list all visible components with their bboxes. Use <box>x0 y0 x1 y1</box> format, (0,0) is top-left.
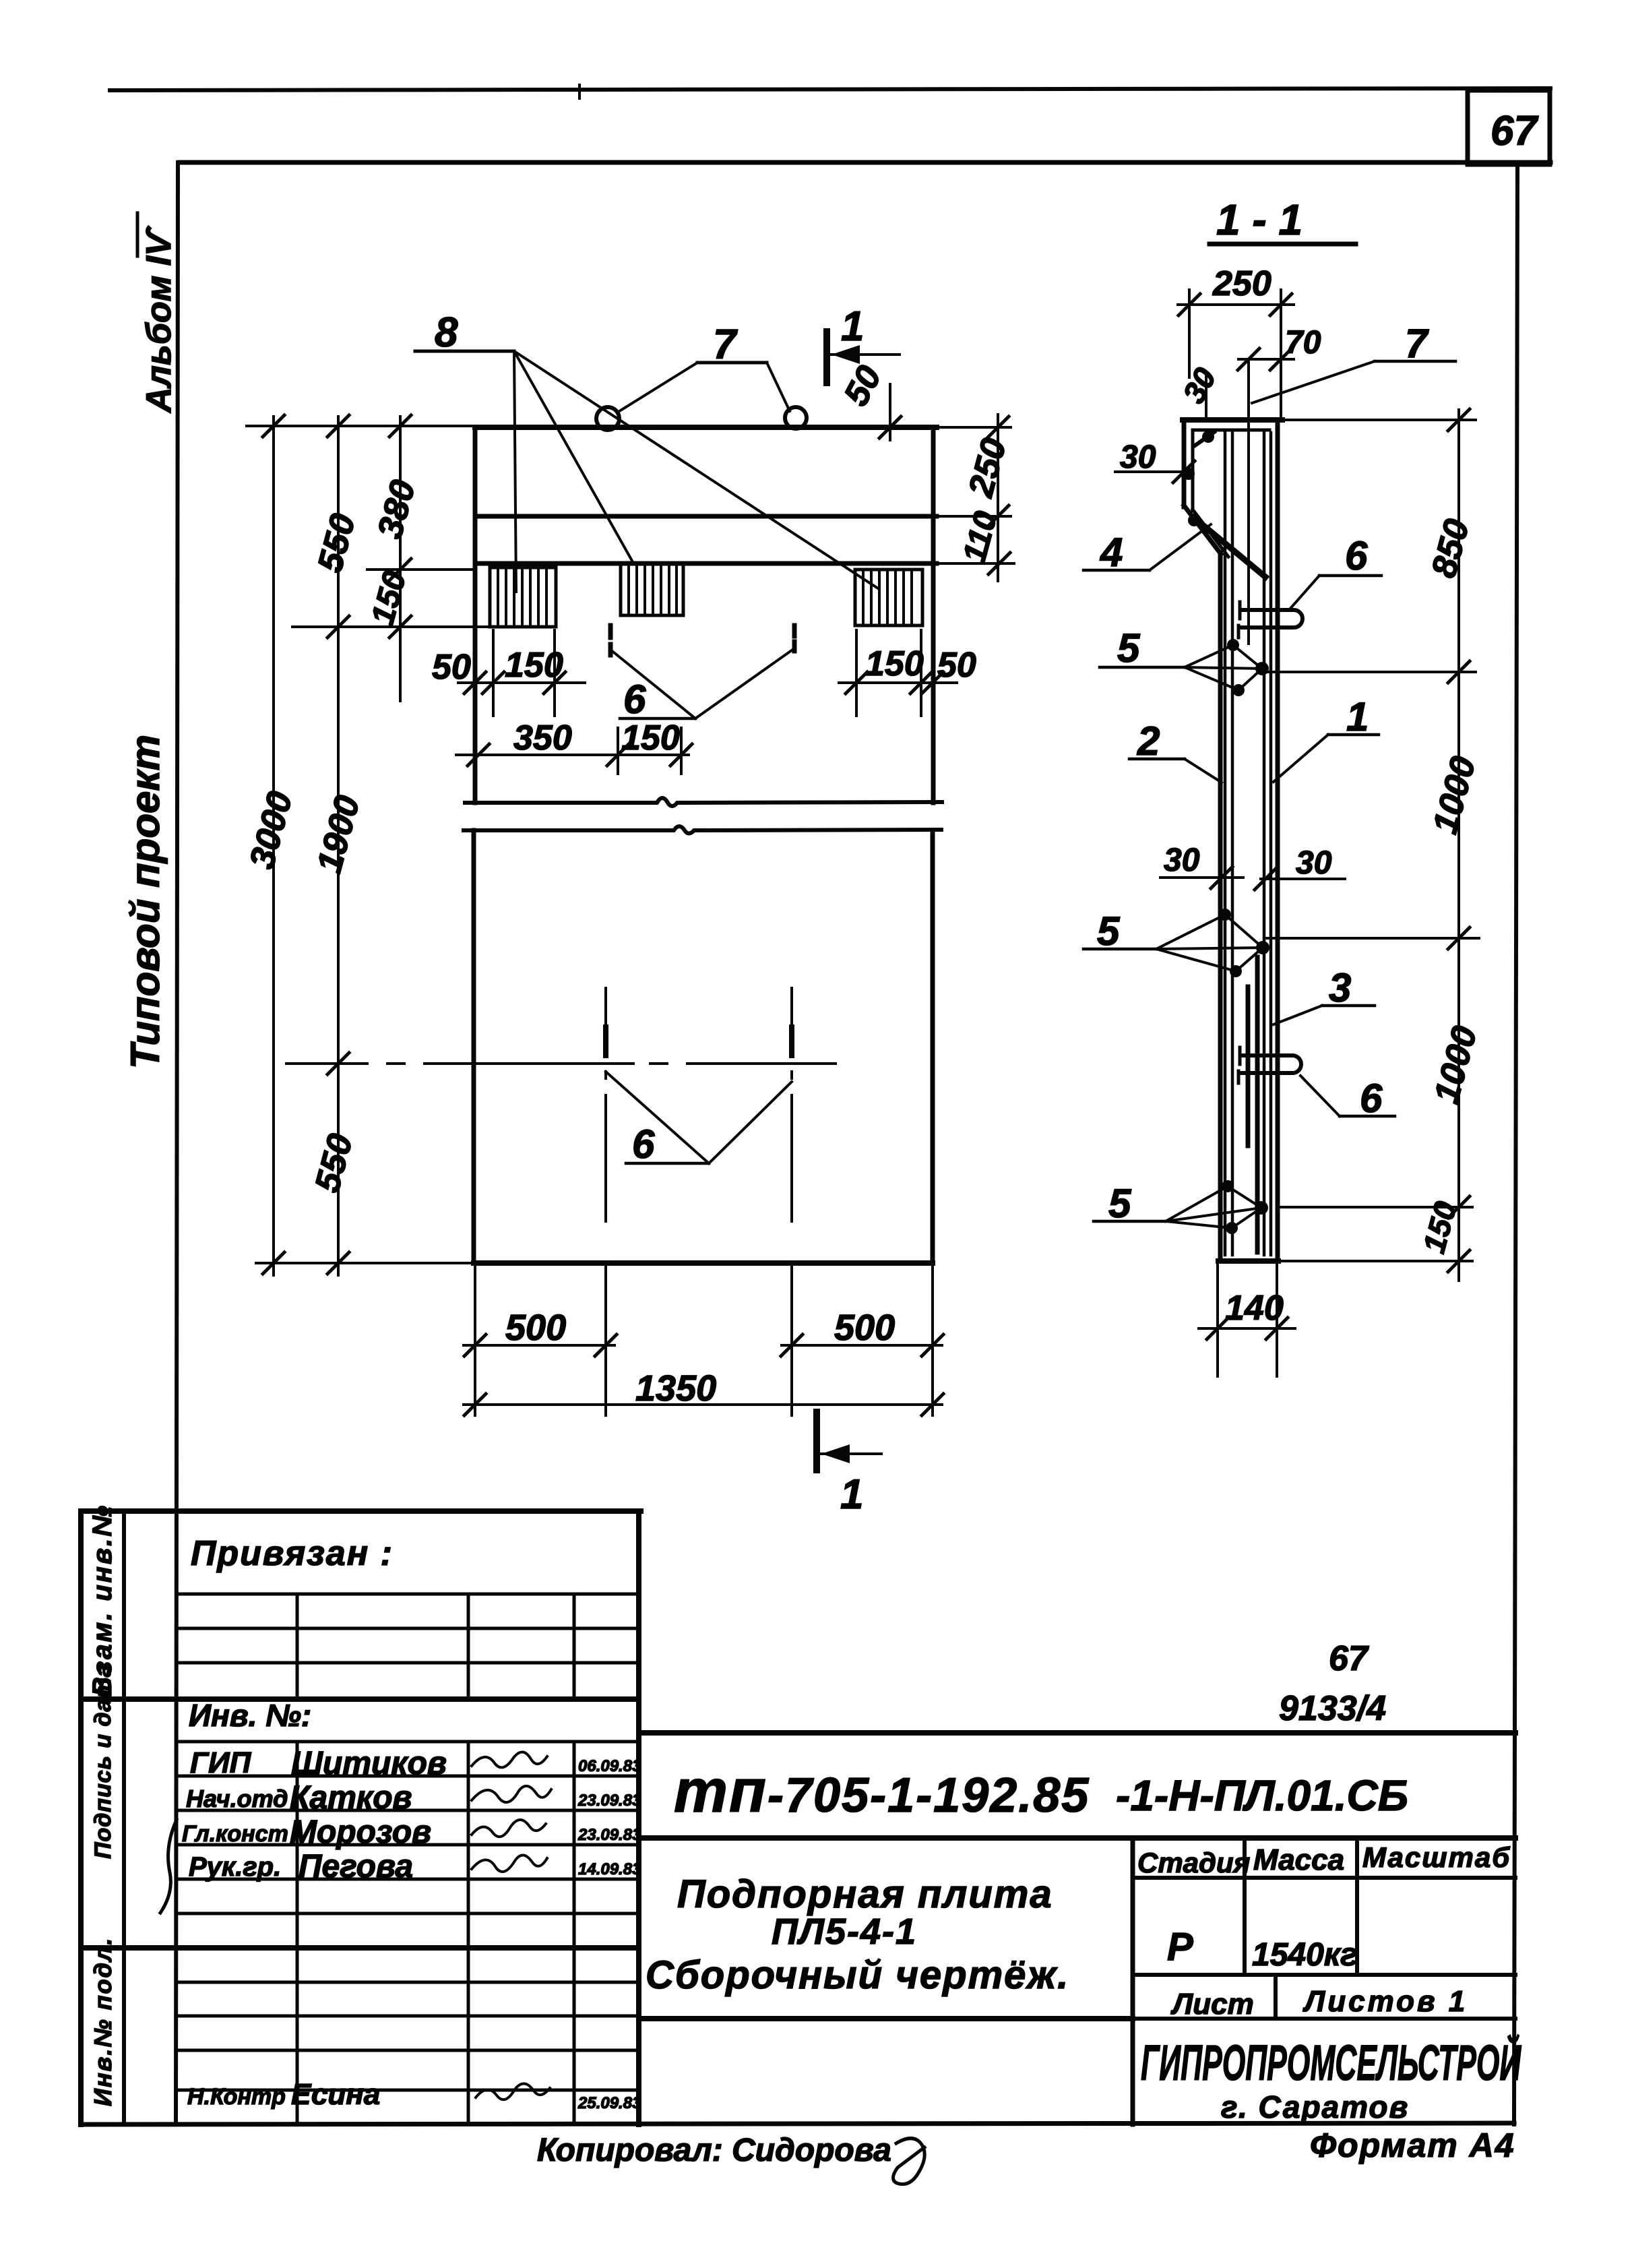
centre line horizontal <box>286 1062 836 1065</box>
svg-text:14.09.83: 14.09.83 <box>578 1860 641 1878</box>
dim 50/150 below plate M1 <box>432 630 585 716</box>
svg-text:Катков: Катков <box>290 1780 412 1816</box>
stamp row lines section 2 <box>178 1742 639 1913</box>
dim line 550/1900/550 <box>308 415 368 1275</box>
title block outer lines <box>641 1733 1515 2019</box>
svg-text:Инв.№ подл.: Инв.№ подл. <box>89 1937 117 2106</box>
row List / Listov 1 <box>1170 1985 1468 2021</box>
svg-text:1 - 1: 1 - 1 <box>1216 195 1303 244</box>
svg-text:30: 30 <box>1120 439 1156 475</box>
dim 30 left face <box>1115 439 1195 483</box>
svg-text:Подпись и дата: Подпись и дата <box>90 1663 116 1859</box>
svg-text:140: 140 <box>1225 1289 1284 1328</box>
leader 6 upper <box>610 648 794 722</box>
svg-text:Морозов: Морозов <box>290 1814 431 1850</box>
lifting loop top right (item 7) <box>785 407 807 429</box>
svg-text:Копировал: Сидорова: Копировал: Сидорова <box>537 2133 891 2168</box>
svg-text:Р: Р <box>1167 1925 1193 1969</box>
anchor rod marks upper (item 6 ends) <box>610 625 794 655</box>
svg-text:Масса: Масса <box>1253 1843 1344 1876</box>
strip label Podpis i data <box>90 1663 116 1859</box>
svg-text:Рук.гр.: Рук.гр. <box>189 1852 281 1882</box>
leader 1 <box>1274 694 1379 782</box>
leader 8 to embedded plates <box>415 309 878 592</box>
embedded plate M1 hatched <box>490 568 556 627</box>
lifting loop item 6 upper (section) <box>1238 602 1303 638</box>
svg-text:Привязан :: Привязан : <box>191 1534 394 1573</box>
svg-text:23.09.83: 23.09.83 <box>577 1791 641 1810</box>
top rule <box>110 85 1550 98</box>
svg-text:Масштаб: Масштаб <box>1362 1841 1511 1873</box>
doc number 67 9133/4 <box>1279 1639 1386 1728</box>
leader 6 upper (section) <box>1289 533 1381 610</box>
centre line vertical right anchor <box>790 988 793 1221</box>
svg-text:ГИП: ГИП <box>190 1746 252 1779</box>
svg-text:1: 1 <box>841 303 864 350</box>
svg-text:67: 67 <box>1329 1639 1369 1678</box>
dim line 380/150 <box>365 415 423 701</box>
dim 500 right <box>781 1308 943 1356</box>
leader 3 <box>1274 965 1375 1024</box>
svg-text:250: 250 <box>1212 264 1272 303</box>
svg-text:Есина: Есина <box>291 2078 380 2111</box>
stamp row lines section 3 <box>178 1982 639 2090</box>
lifting loop top left (item 7) <box>596 407 619 430</box>
svg-text:ГИПРОПРОМСЕЛЬСТРОЙ: ГИПРОПРОМСЕЛЬСТРОЙ <box>1141 2033 1521 2091</box>
note Kopiroval Sidorova <box>537 2133 924 2184</box>
svg-text:4: 4 <box>1100 530 1123 575</box>
dim 500 left <box>464 1308 617 1356</box>
embedded plate M3 hatched <box>855 570 922 625</box>
stamp strip divider <box>122 1511 126 2124</box>
svg-text:ПЛ5-4-1: ПЛ5-4-1 <box>772 1911 917 1952</box>
svg-text:Формат А4: Формат А4 <box>1310 2126 1515 2164</box>
note Format A4 <box>1310 2126 1515 2164</box>
svg-text:150: 150 <box>505 646 563 685</box>
title block inner verticals <box>1133 1838 1357 2124</box>
svg-text:Н.Контр: Н.Контр <box>187 2084 286 2110</box>
plate horizontal line at 250 <box>475 514 937 519</box>
svg-text:1540кг: 1540кг <box>1252 1937 1358 1973</box>
leader 5 bottom <box>1094 1180 1268 1234</box>
left dim extension at 550 <box>292 625 505 628</box>
svg-text:30: 30 <box>1164 842 1200 878</box>
section title 1-1 <box>1210 195 1356 244</box>
value P <box>1167 1925 1193 1969</box>
svg-text:3: 3 <box>1329 965 1351 1010</box>
leader 4 <box>1084 524 1211 575</box>
svg-text:150: 150 <box>865 644 924 683</box>
title block inner horizontals <box>1133 1878 1515 2019</box>
svg-text:5: 5 <box>1108 1181 1132 1226</box>
leader 7 (section) <box>1252 321 1455 403</box>
svg-text:9133/4: 9133/4 <box>1279 1689 1386 1728</box>
dim 1350 <box>464 1368 943 1415</box>
page number box 67 <box>1468 90 1550 164</box>
centre line vertical left anchor <box>604 988 607 1221</box>
plate lower outline <box>474 830 933 1263</box>
dim 250 (section top) <box>1178 264 1294 420</box>
section mark 1 (bottom) <box>817 1412 881 1518</box>
margin note Album IV <box>137 213 179 414</box>
bent bar item 4 (thick diagonal) <box>1194 518 1265 577</box>
svg-text:г. Саратов: г. Саратов <box>1221 2089 1409 2124</box>
break line lower part <box>464 826 941 834</box>
bar item 3 short verticals <box>1248 957 1257 1252</box>
svg-text:-1-Н-ПЛ.01.СБ: -1-Н-ПЛ.01.СБ <box>1116 1771 1408 1820</box>
svg-text:1: 1 <box>1346 694 1369 739</box>
stamp column lines <box>297 1594 574 2124</box>
header Stadiya Massa Masshtab <box>1137 1841 1511 1878</box>
svg-text:30: 30 <box>1296 845 1332 881</box>
svg-text:150: 150 <box>621 718 680 758</box>
svg-text:7: 7 <box>1405 321 1429 366</box>
svg-text:350: 350 <box>513 718 572 758</box>
dim line 3000 <box>243 415 301 1275</box>
dim 150/50 below plate M3 <box>839 630 976 716</box>
dim 30 rotated (top of section) <box>1176 362 1223 419</box>
leader 2 <box>1129 718 1222 783</box>
frame right border <box>1514 164 1517 2124</box>
reinforcement cage inner line <box>1193 430 1269 557</box>
vertical bar item 2 (left pair) <box>1225 431 1232 1255</box>
svg-text:Инв. №:: Инв. №: <box>189 1698 311 1733</box>
value 1540kg <box>1252 1937 1358 1973</box>
dim 50 top right corner <box>836 359 901 440</box>
weld dots top <box>1183 431 1214 526</box>
svg-text:Стадия: Стадия <box>1137 1847 1250 1878</box>
row GIP Shitikov <box>190 1746 641 1781</box>
svg-text:Пегова: Пегова <box>299 1849 413 1884</box>
org GIPROPROMSELSTROY <box>1141 2033 1521 2124</box>
svg-text:8: 8 <box>435 309 458 356</box>
svg-text:70: 70 <box>1285 325 1321 361</box>
svg-text:Подпорная плита: Подпорная плита <box>677 1872 1053 1916</box>
svg-text:25.09.83: 25.09.83 <box>577 2094 641 2112</box>
svg-text:500: 500 <box>834 1308 895 1348</box>
leader 6 lower (section) <box>1300 1076 1395 1121</box>
margin note Typical project <box>123 735 168 1069</box>
svg-text:Нач.отд: Нач.отд <box>186 1785 288 1812</box>
svg-text:Лист: Лист <box>1170 1988 1254 2021</box>
signature flourish left of Gl konstr <box>160 1820 177 1913</box>
leader 5 upper <box>1100 625 1269 696</box>
embedded plate M2 hatched <box>621 564 683 615</box>
svg-text:50: 50 <box>432 648 471 687</box>
svg-text:6: 6 <box>1360 1076 1383 1121</box>
strip label Inv No podl <box>89 1937 117 2106</box>
dim 350/150 <box>456 718 692 774</box>
doc designation TP-705-1-192.85 <box>674 1758 1408 1825</box>
strip label Vzam inv <box>88 1504 117 1696</box>
stamp text Inv No <box>189 1698 311 1733</box>
svg-text:6: 6 <box>623 677 646 722</box>
svg-text:06.09.83: 06.09.83 <box>578 1757 641 1775</box>
row N Kontr Esina <box>187 2078 641 2112</box>
section concrete outline <box>1183 420 1282 1261</box>
svg-text:Гл.конст: Гл.конст <box>182 1821 288 1847</box>
frame bottom edge <box>81 2123 1514 2124</box>
svg-text:1: 1 <box>840 1471 863 1518</box>
svg-text:500: 500 <box>505 1308 566 1348</box>
stamp row lines section 1 <box>178 1594 639 1663</box>
title Podpornaya plita <box>646 1872 1069 1997</box>
row Nach otd Katkov <box>186 1780 641 1816</box>
plate horizontal line at 110 <box>475 561 937 566</box>
right side dims 250 / 110 <box>937 415 1014 581</box>
stamp outer frame <box>81 1511 641 2124</box>
svg-text:2: 2 <box>1137 718 1160 764</box>
dim 30 30 (mid section) <box>1160 842 1345 890</box>
svg-text:Альбом IѴ: Альбом IѴ <box>139 225 179 414</box>
section mark 1 (top) <box>827 303 900 383</box>
row Gl konstr Morozov <box>182 1814 641 1850</box>
left dim extension top <box>247 425 475 427</box>
svg-text:5: 5 <box>1097 909 1121 954</box>
svg-text:Шитиков: Шитиков <box>291 1746 447 1781</box>
bottom extension lines <box>475 1266 933 1415</box>
frame top edge <box>179 160 1550 165</box>
dim 70 <box>1238 325 1321 644</box>
frame left border <box>176 162 178 2124</box>
left dim extension at 380 <box>367 568 475 571</box>
anchor end marks lower <box>606 1027 792 1055</box>
svg-text:67: 67 <box>1490 108 1538 154</box>
svg-text:6: 6 <box>632 1122 655 1167</box>
stamp heavy section lines <box>81 1699 639 1948</box>
svg-text:Сборочный чертёж.: Сборочный чертёж. <box>646 1953 1069 1997</box>
dim 140 bottom of section <box>1199 1264 1295 1376</box>
row Ruk gr Pegova <box>189 1849 641 1884</box>
leader 7 to lifting loops <box>617 321 790 412</box>
svg-text:Листов 1: Листов 1 <box>1303 1985 1468 2018</box>
leader 6 lower <box>606 1072 792 1167</box>
vertical bar item 1 (right pair) <box>1264 431 1271 1255</box>
svg-text:1350: 1350 <box>635 1368 716 1409</box>
svg-text:6: 6 <box>1345 533 1368 578</box>
break line upper part <box>465 798 942 806</box>
svg-text:23.09.83: 23.09.83 <box>577 1826 641 1844</box>
lifting loop item 6 lower (section) <box>1238 1047 1301 1083</box>
svg-text:50: 50 <box>937 646 976 685</box>
right dim chain 850/1000/1000/150 <box>1263 409 1485 1281</box>
leader 5 middle <box>1084 909 1269 977</box>
svg-text:5: 5 <box>1117 625 1141 671</box>
left dim extension bottom <box>256 1262 474 1264</box>
svg-text:Типовой проект: Типовой проект <box>123 735 168 1069</box>
plate upper outline <box>475 427 937 803</box>
stamp text Privyazan <box>191 1534 394 1573</box>
